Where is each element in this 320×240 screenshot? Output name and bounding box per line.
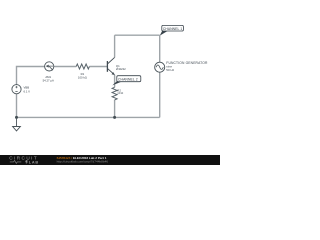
svg-text:http://circuitlab.com/cmp/7d74: http://circuitlab.com/cmp/7d744b8b46 [57, 160, 109, 164]
svg-text:10 Ω: 10 Ω [117, 91, 123, 95]
wire: collector vertical [114, 35, 116, 57]
wire: top rail collector to scope corner [115, 34, 160, 36]
footer logo CIRCUIT LAB [9, 156, 39, 165]
svg-text:CHANNEL 1: CHANNEL 1 [163, 27, 182, 31]
svg-text:FUNCTION GENERATOR: FUNCTION GENERATOR [166, 61, 208, 65]
resistor R1 [76, 64, 89, 69]
scope flag CHANNEL 2 [112, 76, 141, 86]
footer bar [0, 155, 220, 165]
wire: bottom rail [17, 116, 160, 118]
resistor R2 [112, 87, 117, 100]
wire: VBB top lead up and across toward base [17, 67, 77, 85]
wire: VBB bottom lead down [16, 94, 18, 118]
ground [13, 117, 21, 130]
label FUNCTION GENERATOR sine 50 Hz [166, 61, 208, 72]
scope flag CHANNEL 1 [160, 25, 184, 35]
svg-text:54.27 µA: 54.27 µA [43, 79, 54, 83]
label AM1 54.27 uA [43, 75, 54, 82]
svg-text:CHANNEL 2: CHANNEL 2 [118, 78, 138, 82]
svg-text:100 kΩ: 100 kΩ [78, 75, 87, 79]
wire: right vertical through function generator [159, 35, 161, 117]
node: junction R2 / bottom rail [113, 116, 116, 119]
transistor Q1 [107, 57, 114, 73]
node: junction VBB / bottom rail [15, 116, 18, 119]
svg-text:LAB: LAB [29, 161, 39, 165]
wire: R1 right lead to Q1 base [89, 66, 107, 68]
svg-text:6.1 V: 6.1 V [24, 89, 31, 93]
label Q1 2N2222 [116, 64, 126, 71]
emitter arrowhead [112, 72, 116, 75]
label R2 10 Ohm [117, 89, 123, 96]
voltage source VBB [12, 85, 21, 94]
svg-text:2N2222: 2N2222 [116, 67, 126, 71]
label R1 100 kOhm [78, 72, 87, 79]
ammeter AM1 [45, 62, 54, 71]
svg-text:50 Hz: 50 Hz [166, 68, 174, 72]
wire: emitter vertical to R2 [114, 75, 116, 88]
function generator [155, 62, 165, 72]
wire: R2 bottom lead [114, 100, 116, 118]
label VBB 6.1 V [24, 86, 31, 94]
